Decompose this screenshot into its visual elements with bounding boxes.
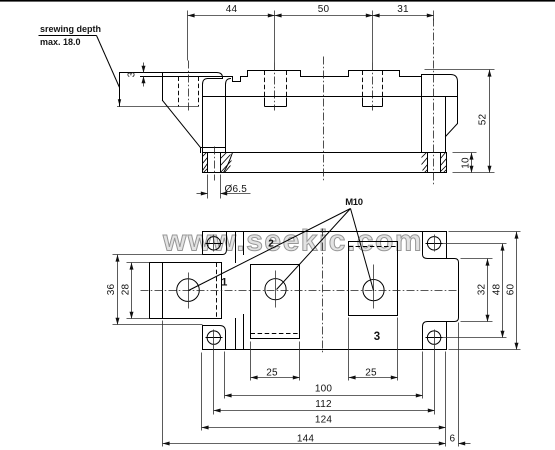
mounting hole top-left [206, 235, 223, 252]
svg-text:25: 25 [365, 368, 377, 379]
svg-text:52: 52 [478, 114, 489, 126]
svg-text:3: 3 [127, 71, 138, 77]
svg-text:1: 1 [221, 277, 227, 289]
mounting hole bottom-left [206, 330, 223, 347]
note: srewing depth max. 18.0 [39, 24, 122, 106]
svg-text:36: 36 [106, 284, 117, 296]
corner ear top-right [423, 232, 447, 259]
dimension 124 [202, 352, 446, 447]
centerline mid module [323, 57, 325, 183]
dimension dia 6.5 [197, 175, 251, 199]
right terminal square [349, 242, 398, 316]
corner ear bottom-left [203, 326, 226, 350]
svg-text:25: 25 [266, 368, 278, 379]
middle terminal square [251, 265, 300, 339]
mounting hole top-right [426, 235, 443, 252]
dimension row 44 50 31 [188, 4, 434, 63]
hidden screw hole in left bracket [179, 61, 199, 111]
border frame top [0, 0, 555, 2]
svg-text:100: 100 [315, 384, 333, 395]
svg-text:max. 18.0: max. 18.0 [40, 37, 81, 47]
corner ear bottom-right [423, 322, 447, 350]
right end cap [422, 75, 458, 153]
dimension 25 left [251, 342, 300, 381]
dimension 36 [106, 255, 203, 325]
plan mid centerline [322, 229, 324, 353]
dimension 28 [121, 263, 150, 319]
case front panel [203, 75, 458, 153]
svg-text:144: 144 [297, 434, 315, 445]
label M10 with leaders [189, 197, 374, 290]
dimension 144 [163, 321, 446, 447]
main horizontal centerline [141, 290, 459, 292]
svg-text:2: 2 [268, 238, 274, 249]
svg-text:124: 124 [315, 415, 333, 426]
left terminal circle [177, 279, 200, 302]
dimension 6 [450, 323, 471, 447]
baseplate left hole section [203, 147, 233, 181]
dimension 3 [127, 63, 144, 87]
dimension 112 [214, 347, 435, 415]
right connector protrusion [447, 259, 459, 322]
svg-text:10: 10 [461, 157, 472, 169]
svg-text:60: 60 [506, 284, 517, 296]
dimension 52 [425, 70, 495, 173]
left terminal tab [150, 263, 222, 319]
baseplate [203, 153, 447, 173]
right terminal circle [363, 280, 384, 301]
corner ear top-left [203, 232, 227, 255]
vertical centerlines of terminals [188, 273, 190, 309]
inner step lines [236, 232, 244, 350]
dimension 32 [461, 259, 493, 322]
top surface line with notch [141, 77, 422, 82]
dimension 10 [453, 153, 477, 173]
svg-text:48: 48 [492, 284, 503, 296]
mounting hole bottom-right [426, 330, 443, 347]
body outline [203, 232, 447, 350]
svg-text:srewing depth: srewing depth [40, 24, 101, 34]
dimension 60 [449, 232, 521, 350]
svg-text:M10: M10 [345, 197, 363, 208]
left bracket block outline [117, 73, 226, 153]
svg-text:28: 28 [121, 284, 132, 296]
svg-text:3: 3 [374, 331, 380, 343]
baseplate right hole section [422, 153, 447, 173]
dimension 48 [443, 244, 507, 338]
centerline right mounting hole [433, 19, 435, 185]
terminal block 2 [349, 63, 400, 111]
svg-text:6: 6 [450, 433, 456, 444]
svg-text:31: 31 [397, 4, 409, 15]
middle terminal circle [265, 279, 286, 300]
dimension 100 [225, 352, 423, 399]
terminal block 1 [248, 63, 301, 111]
svg-text:Ø6.5: Ø6.5 [225, 184, 248, 195]
dimension 25 right [349, 318, 398, 381]
svg-text:112: 112 [315, 399, 332, 410]
svg-text:50: 50 [318, 4, 330, 15]
svg-text:44: 44 [226, 4, 238, 15]
svg-text:32: 32 [477, 284, 488, 296]
